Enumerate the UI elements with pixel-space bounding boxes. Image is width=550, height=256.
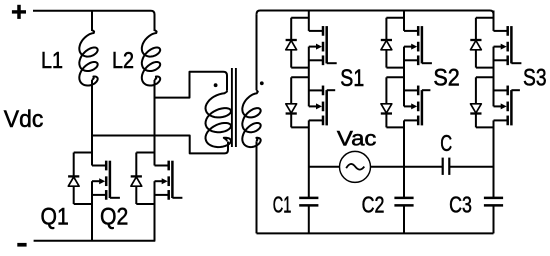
wire L1 node to transformer primary bottom (92, 136, 228, 154)
antiparallel diode of Q2 (131, 153, 155, 205)
wire S2 common source link (403, 47, 405, 107)
wire secondary top lead (256, 14, 258, 90)
transistor Q1 (41, 161, 120, 231)
transistor Q2 (100, 161, 182, 231)
svg-text:C2: C2 (362, 191, 385, 217)
switch S2 upper diode (381, 18, 404, 68)
switch S3 upper transistor (494, 11, 522, 66)
wire top rail from + to L2 (33, 11, 155, 31)
wire L2 bottom to Q2 drain (154, 80, 156, 166)
label Vdc (4, 106, 44, 133)
svg-text:C3: C3 (449, 191, 472, 217)
switch S1 lower diode (286, 77, 309, 127)
wire mid rail Vac to capacitor C (370, 166, 442, 168)
wire C3 to bottom rail (493, 205, 495, 233)
ac source Vac (337, 126, 377, 182)
antiparallel diode of Q1 (68, 153, 92, 205)
switch S3 lower diode (470, 77, 493, 127)
svg-text:Vac: Vac (337, 126, 377, 150)
svg-text:C1: C1 (273, 191, 292, 217)
transformer primary polarity dot (214, 83, 218, 87)
switch S2 upper transistor (404, 11, 432, 66)
wire Q2 source to bottom rail (154, 181, 156, 241)
switch S2 lower diode (381, 77, 404, 127)
wire L1 bottom to Q1 drain (91, 80, 93, 166)
inductor L2 (112, 30, 160, 86)
wire Q1 source to bottom rail (91, 181, 93, 241)
wire mid rail S1 to Vac (309, 166, 340, 168)
switch S3 upper diode (470, 18, 493, 68)
switch S1 lower transistor (309, 86, 335, 126)
wire S3 lower drain to mid rail and capacitor (493, 120, 495, 197)
wire S1 common source link (308, 47, 310, 107)
wire bottom rail of input stage (34, 240, 156, 242)
svg-text:Q2: Q2 (100, 204, 128, 231)
wire C1 to bottom rail (308, 205, 310, 233)
wire C2 to bottom rail (403, 205, 405, 233)
switch S2 lower transistor (404, 86, 430, 126)
switch S1 upper diode (286, 18, 309, 68)
label S2 (433, 65, 459, 92)
wire S1 lower drain to mid rail and capacitor (308, 120, 310, 197)
capacitor C (series) (440, 130, 452, 175)
svg-text:S2: S2 (433, 65, 459, 92)
wire mid rail C to S3 (449, 166, 493, 168)
transformer primary winding (206, 90, 232, 147)
wire S2 lower drain to mid rail and capacitor (403, 120, 405, 197)
transformer secondary polarity dot (260, 81, 264, 85)
wire top rail of output stage (257, 11, 494, 15)
svg-text:L2: L2 (112, 47, 134, 73)
capacitor C1 (273, 191, 319, 217)
svg-text:S1: S1 (340, 65, 364, 92)
switch S1 upper transistor (309, 11, 337, 66)
wire secondary bottom lead to output bottom rail (256, 141, 258, 233)
plus terminal of Vdc (12, 5, 26, 19)
wire L2 node to transformer primary top (dot end) (155, 72, 228, 98)
switch S3 lower transistor (494, 86, 520, 126)
minus terminal of Vdc (17, 243, 26, 247)
wire S3 common source link (493, 47, 495, 107)
wire bottom rail of output stage (257, 232, 494, 234)
transformer secondary winding (242, 90, 260, 147)
svg-text:S3: S3 (523, 65, 547, 92)
svg-text:Vdc: Vdc (4, 106, 44, 133)
svg-text:Q1: Q1 (41, 204, 69, 231)
label S3 (523, 65, 547, 92)
capacitor C3 (449, 191, 503, 217)
svg-text:L1: L1 (41, 47, 63, 73)
capacitor C2 (362, 191, 414, 217)
transformer core (232, 68, 236, 147)
inductor L1 (41, 11, 98, 86)
label S1 (340, 65, 364, 92)
svg-text:C: C (440, 130, 452, 156)
